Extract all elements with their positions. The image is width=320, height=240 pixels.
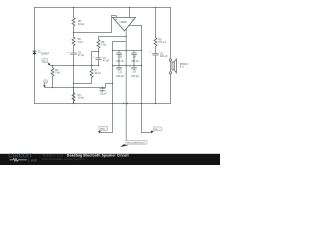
wire C7 leads [98,52,100,66]
wire R2 leads [73,88,75,104]
svg-text:LAB: LAB [28,158,37,163]
wire grid top rail [113,50,142,52]
wire op-amp bypass pin [129,25,142,27]
net flag P3 audio in R [43,80,48,88]
junction dots [52,7,156,104]
net flag GND [98,126,108,133]
wire R4 branch [52,66,54,88]
svg-text:100 µF: 100 µF [116,75,124,78]
capacitor C11 100u [116,67,122,69]
wire zobel chain x=155.5 [155,8,157,104]
svg-text:1N4007: 1N4007 [41,52,50,55]
wire decoupling column B [133,51,135,70]
wire R8 bottom to R7 corner [92,48,99,69]
svg-text:0.5-1 Ω: 0.5-1 Ω [158,41,166,44]
svg-text:10 kΩ: 10 kΩ [78,96,85,99]
speaker SPKR1 [169,59,177,74]
resistor R9 [154,38,157,47]
wire ground rail [35,103,171,105]
wire bend above decoupling grid [113,42,127,51]
capacitor C7 47u [96,58,102,60]
wire mic2 node horizontal with jog [45,84,113,88]
connector P1 micro usb power [120,140,147,147]
net flag 5V [151,127,162,133]
capacitor C10 330n [116,53,122,55]
resistor R7 10k [90,69,93,78]
resistor R8 1k [97,40,100,49]
circuitlab logo [8,154,37,163]
svg-text:Micro-USB (Power): Micro-USB (Power) [127,141,145,144]
svg-text:http:​//circuitlab.com/c/7pq5w: http:​//circuitlab.com/c/7pq5wm [43,157,86,161]
capacitor C8 330n [131,53,137,55]
svg-text:10 µF: 10 µF [100,92,107,95]
svg-text:C11: C11 [118,71,123,74]
svg-text:8 Ω: 8 Ω [180,65,184,68]
svg-text:GND: GND [100,129,105,131]
svg-text:330 nF: 330 nF [131,60,139,63]
wire to op-amp plus input [74,16,117,33]
svg-text:10 kΩ: 10 kΩ [78,23,85,26]
svg-text:330 nF: 330 nF [116,60,124,63]
svg-text:100 µF: 100 µF [160,55,168,58]
capacitor C5 47u [70,53,76,55]
watermark band [0,154,220,165]
resistor R2 10k [72,93,75,102]
resistor R6 1k [72,37,75,46]
wire audio node horizontal [50,65,98,67]
resistor R5 10k [72,18,75,27]
svg-text:1 kΩ: 1 kΩ [78,41,83,44]
capacitor C6 100u [152,53,158,55]
wire grid mid rail [113,65,142,67]
svg-text:10 kΩ: 10 kΩ [94,72,101,75]
svg-text:LM386: LM386 [120,22,128,24]
wire op-amp output vertical [125,29,127,140]
capacitor C4 10u [100,89,106,91]
svg-text:47 µF: 47 µF [78,54,85,57]
svg-text:100 µF: 100 µF [131,75,139,78]
wire bias divider chain [73,8,75,104]
wire grid left vertical down to flag [100,51,112,133]
wire top supply rail [35,7,171,9]
resistor R4 1k [51,68,54,77]
wire feedback R8 top [99,37,127,40]
capacitor C9 100u [131,67,137,69]
wire long branch x=141.5 [142,26,152,133]
wire right vertical to speaker [170,8,172,104]
svg-text:C10: C10 [118,55,123,58]
svg-text:47 µF: 47 µF [103,60,110,63]
svg-text:1 kΩ: 1 kΩ [55,71,60,74]
diode D1 1N4007 [33,50,37,52]
net flag P2 audio in L [42,59,50,66]
svg-text:1 kΩ: 1 kΩ [101,44,106,47]
wire C4 branch [102,88,104,92]
wire op-amp top power drop [129,8,131,18]
wire R7 bottom leg [74,78,92,84]
wire left vertical with diode gap [34,8,36,104]
op-amp U1 LM386 [113,17,136,31]
wire decoupling column A [118,51,120,70]
